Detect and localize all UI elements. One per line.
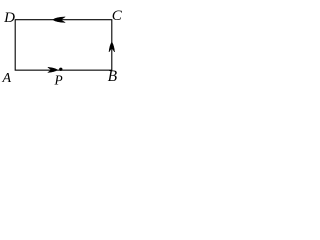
svg-text:B: B [108, 68, 118, 85]
svg-text:A: A [2, 71, 12, 86]
svg-text:D: D [3, 10, 15, 26]
svg-text:P: P [54, 72, 63, 87]
arrow on edge AB (pointing right toward B) [48, 67, 58, 72]
arrow on edge CD (pointing left toward D) [53, 17, 65, 23]
arrow on edge BC (pointing up toward C) [109, 42, 115, 52]
point P dot on edge AB [59, 68, 62, 71]
rectangle ABCD [15, 20, 112, 70]
svg-text:C: C [112, 8, 123, 24]
background [0, 0, 124, 93]
